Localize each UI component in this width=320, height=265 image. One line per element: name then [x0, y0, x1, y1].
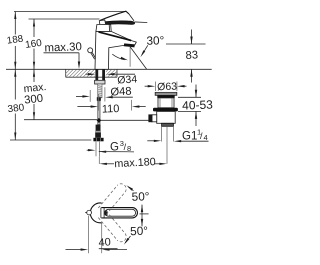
svg-text:40-53: 40-53	[182, 98, 213, 113]
svg-text:max.180: max.180	[114, 156, 156, 170]
faucet lever hook edge	[129, 14, 134, 21]
svg-text:G1: G1	[182, 130, 197, 142]
countertop deck section	[66, 69, 117, 77]
dimension G 3/8	[87, 149, 89, 151]
mounting nut	[95, 80, 105, 84]
160 top reference line	[29, 18, 100, 20]
stud end	[97, 97, 101, 101]
waste flange cap	[155, 92, 177, 95]
threaded stud	[98, 84, 102, 98]
handle rod end	[87, 210, 92, 215]
waste seal band	[157, 95, 174, 98]
handle junction ticks	[101, 208, 104, 218]
waste o-ring flange	[153, 108, 178, 112]
supply hose	[98, 101, 100, 125]
rod coupling knot	[97, 118, 102, 123]
svg-text:110: 110	[102, 103, 120, 116]
83 top arrow	[191, 30, 193, 45]
waste pipe centerline	[166, 126, 168, 163]
faucet collar	[96, 25, 111, 32]
pull rod	[91, 52, 96, 59]
basin reference line	[178, 96, 201, 98]
dimension 40	[87, 216, 89, 253]
dimension G1 1/4	[147, 140, 154, 142]
svg-text:188: 188	[6, 34, 24, 47]
dimension 110	[77, 106, 91, 108]
dimension Ø48	[76, 95, 83, 97]
spout angle 30deg line	[130, 47, 146, 69]
svg-text:380: 380	[7, 102, 25, 115]
svg-text:30°: 30°	[146, 33, 165, 48]
83 bottom arrow	[191, 69, 193, 82]
faucet lever grip blade	[103, 21, 134, 25]
spout top edge thick	[99, 32, 132, 41]
hose fitting mid	[95, 131, 101, 138]
dimension Ø34	[86, 73, 89, 75]
dimension line 160/max300 vertical	[33, 19, 35, 120]
max.30 leader	[44, 53, 80, 63]
handle swing dashed upper	[98, 184, 126, 215]
deck hatching	[62, 69, 126, 77]
handle lever inner contour	[105, 209, 136, 216]
waste lower reference line	[178, 110, 201, 112]
380 reference line	[10, 139, 91, 141]
hose fitting top block	[96, 125, 101, 131]
faucet body and spout	[95, 31, 136, 69]
max300 reference line	[24, 119, 97, 121]
swing angle line	[141, 205, 143, 227]
faucet lever tip line	[135, 21, 148, 24]
hose fitting nut	[93, 138, 103, 142]
waste pipe stub	[162, 123, 174, 126]
handle pivot blob	[105, 210, 108, 215]
30deg leader	[142, 45, 148, 54]
handle swing dashed lower	[98, 211, 126, 242]
waste body	[157, 111, 176, 123]
svg-text:Ø63: Ø63	[157, 81, 177, 94]
svg-text:8: 8	[127, 144, 131, 153]
waste port knurl	[148, 114, 152, 122]
waste neck	[158, 98, 174, 108]
dimension max.180	[99, 163, 107, 165]
svg-text:40: 40	[98, 236, 111, 249]
svg-text:Ø48: Ø48	[110, 86, 132, 99]
svg-text:50°: 50°	[131, 189, 150, 204]
30deg arc arrow	[112, 54, 124, 60]
svg-text:G: G	[110, 142, 119, 154]
aerator band	[124, 43, 135, 47]
faucet lever top edge	[100, 11, 129, 20]
hose threaded tail	[96, 142, 99, 157]
swing center tick	[140, 213, 149, 215]
shank thread walls	[95, 69, 98, 80]
188 top reference line	[14, 11, 126, 13]
svg-text:50°: 50°	[130, 224, 149, 239]
pull-rod knob	[88, 48, 93, 53]
handle cap arc	[90, 203, 101, 223]
40-53 top arrow	[195, 85, 197, 98]
dimension Ø63	[145, 85, 149, 87]
waste pipe outline	[162, 126, 174, 141]
40-53 bottom arrow	[195, 111, 197, 126]
spout outlet vertical reference	[129, 47, 131, 67]
svg-text:Ø34: Ø34	[117, 73, 138, 86]
dimension line 188/380 vertical	[14, 12, 16, 141]
handle lever outline	[101, 208, 137, 218]
pop-up linkage rod	[101, 119, 150, 121]
faucet lever hinge	[99, 20, 105, 25]
waste side port	[152, 115, 157, 122]
svg-text:300: 300	[24, 93, 44, 107]
deck surface line	[6, 68, 212, 70]
svg-text:4: 4	[204, 133, 208, 142]
spout height reference line	[166, 43, 206, 45]
svg-text:83: 83	[185, 49, 198, 62]
